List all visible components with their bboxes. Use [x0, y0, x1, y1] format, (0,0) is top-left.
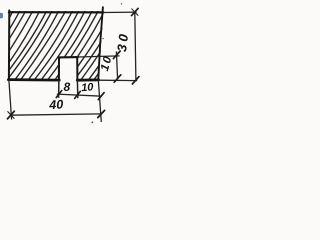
extension line: notch left down to 8-dim: [58, 80, 60, 98]
extension line: rect bottom to 30-dim: [99, 79, 138, 81]
extension line: notch top to 10-dim: [78, 56, 120, 57]
blue scan mark at left edge: [0, 13, 3, 19]
keyway notch: left side: [58, 57, 60, 80]
svg-text:8: 8: [63, 80, 70, 94]
arrow tick 2 at 40-dim left: [8, 112, 14, 119]
dimension line 10 (vertical, right of section): [116, 51, 117, 79]
paper background: [0, 0, 145, 129]
scan speck near 30 dim: [121, 3, 123, 5]
scan speck mid right: [102, 38, 103, 39]
arrow tick at 30-dim bottom: [132, 77, 139, 84]
dimension line 40: [10, 114, 101, 115]
outline: left edge: [8, 10, 10, 80]
arrow tick 2 at 30-dim top: [132, 9, 138, 16]
outline: bottom edge right part: [77, 79, 98, 82]
svg-text:40: 40: [48, 97, 64, 112]
outline: bottom edge left part: [8, 78, 59, 81]
arrow tick at 40-dim right: [98, 110, 105, 117]
dimension line 30 (vertical, far right): [135, 12, 136, 81]
outline: top edge: [9, 11, 103, 13]
extension line: right edge down to 40-dim: [98, 80, 101, 122]
arrow tick at 30-dim top: [132, 8, 139, 15]
arrow tick at 10-vdim bottom: [114, 75, 121, 82]
svg-text:30: 30: [114, 30, 131, 52]
arrow tick at 10-vdim top: [113, 51, 120, 59]
keyway notch: right side: [76, 57, 78, 80]
outline: right edge: [98, 7, 103, 79]
keyway notch: top edge: [58, 56, 78, 58]
dimension line 8 and 10 (horizontal chain): [57, 94, 102, 96]
arrow tick at 8-dim left: [56, 91, 62, 98]
extension line: notch right down to 8-dim: [76, 80, 78, 98]
scan speck bottom right: [91, 121, 93, 123]
svg-text:10: 10: [81, 81, 95, 94]
section hatching: [0, 11, 144, 82]
arrow tick at 10-dim right end: [98, 93, 104, 100]
extension line: left edge down to 40-dim: [9, 80, 12, 120]
arrow tick at 8-dim right: [75, 91, 81, 98]
extension line: rect top to 30-dim: [103, 11, 136, 13]
arrow tick at 40-dim left: [8, 111, 15, 119]
